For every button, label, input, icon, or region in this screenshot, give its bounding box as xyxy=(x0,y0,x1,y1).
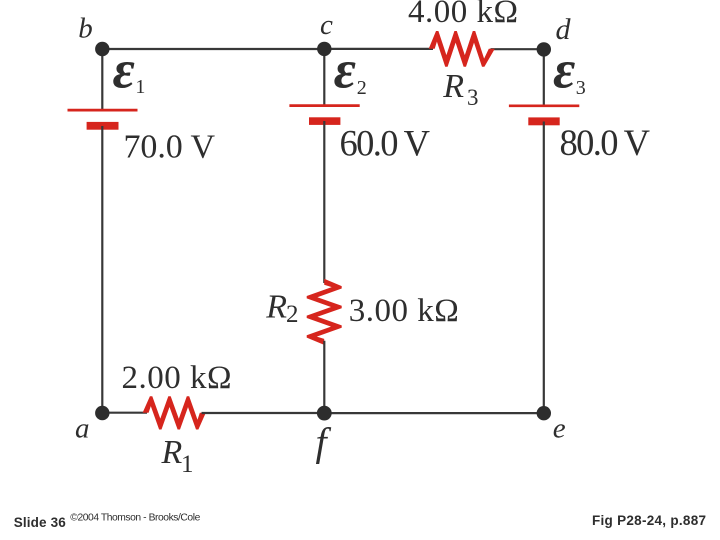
node b xyxy=(95,42,109,56)
svg-text:2: 2 xyxy=(286,301,299,328)
svg-text:3: 3 xyxy=(576,77,586,99)
svg-text:c: c xyxy=(320,9,333,41)
svg-text:2: 2 xyxy=(357,77,367,99)
wire battery E3 down to e xyxy=(543,122,545,414)
node d xyxy=(537,42,551,56)
battery E1 short thick plate xyxy=(87,122,119,130)
svg-text:R: R xyxy=(161,434,183,471)
svg-text:1: 1 xyxy=(135,76,145,98)
battery E2 short thick plate xyxy=(309,117,340,125)
svg-text:ε: ε xyxy=(553,40,575,100)
battery E2 long plate xyxy=(289,104,359,107)
svg-text:ε: ε xyxy=(113,40,135,100)
node e xyxy=(537,406,551,420)
wire d down to battery E3 xyxy=(543,49,545,105)
svg-text:ε: ε xyxy=(334,40,356,100)
battery E3 short thick plate xyxy=(528,117,559,125)
svg-text:e: e xyxy=(553,413,566,445)
wire b down to battery E1 xyxy=(101,49,103,110)
svg-text:60.0 V: 60.0 V xyxy=(340,123,431,164)
svg-text:3: 3 xyxy=(467,85,479,110)
svg-text:R: R xyxy=(265,289,287,326)
wire c to R3 (top) xyxy=(324,48,433,50)
wire b to c (top) xyxy=(102,48,324,50)
svg-text:Slide 36: Slide 36 xyxy=(14,515,67,530)
battery E3 long plate xyxy=(509,104,579,107)
node f xyxy=(317,406,332,421)
node a xyxy=(95,406,109,420)
battery E1 long plate xyxy=(68,109,138,112)
wire f to e (bottom) xyxy=(324,412,544,414)
wire R3 to d (top) xyxy=(491,48,544,50)
svg-text:b: b xyxy=(78,13,93,45)
resistor R1 zigzag xyxy=(143,396,206,429)
wire battery E1 down to a xyxy=(101,126,103,413)
svg-text:©2004 Thomson - Brooks/Cole: ©2004 Thomson - Brooks/Cole xyxy=(70,513,200,524)
svg-text:a: a xyxy=(75,413,90,445)
wire a to R1 (bottom) xyxy=(102,412,147,414)
svg-text:70.0 V: 70.0 V xyxy=(124,129,216,166)
wire battery E2 down to R2 xyxy=(323,121,325,283)
svg-text:1: 1 xyxy=(181,451,194,478)
svg-text:80.0 V: 80.0 V xyxy=(560,122,651,163)
resistor R3 zigzag xyxy=(429,31,495,67)
svg-text:R: R xyxy=(442,68,464,105)
svg-text:2.00 kΩ: 2.00 kΩ xyxy=(122,360,232,396)
svg-text:4.00 kΩ: 4.00 kΩ xyxy=(408,0,518,30)
node c xyxy=(317,42,331,56)
svg-text:Fig P28-24, p.887: Fig P28-24, p.887 xyxy=(592,513,706,528)
wire R2 down to f xyxy=(323,341,325,413)
svg-text:f: f xyxy=(316,420,332,465)
svg-text:3.00 kΩ: 3.00 kΩ xyxy=(349,293,459,329)
wire c down to battery E2 xyxy=(323,49,325,105)
resistor R2 zigzag (vertical) xyxy=(307,279,342,345)
wire R1 to f (bottom) xyxy=(202,412,325,414)
